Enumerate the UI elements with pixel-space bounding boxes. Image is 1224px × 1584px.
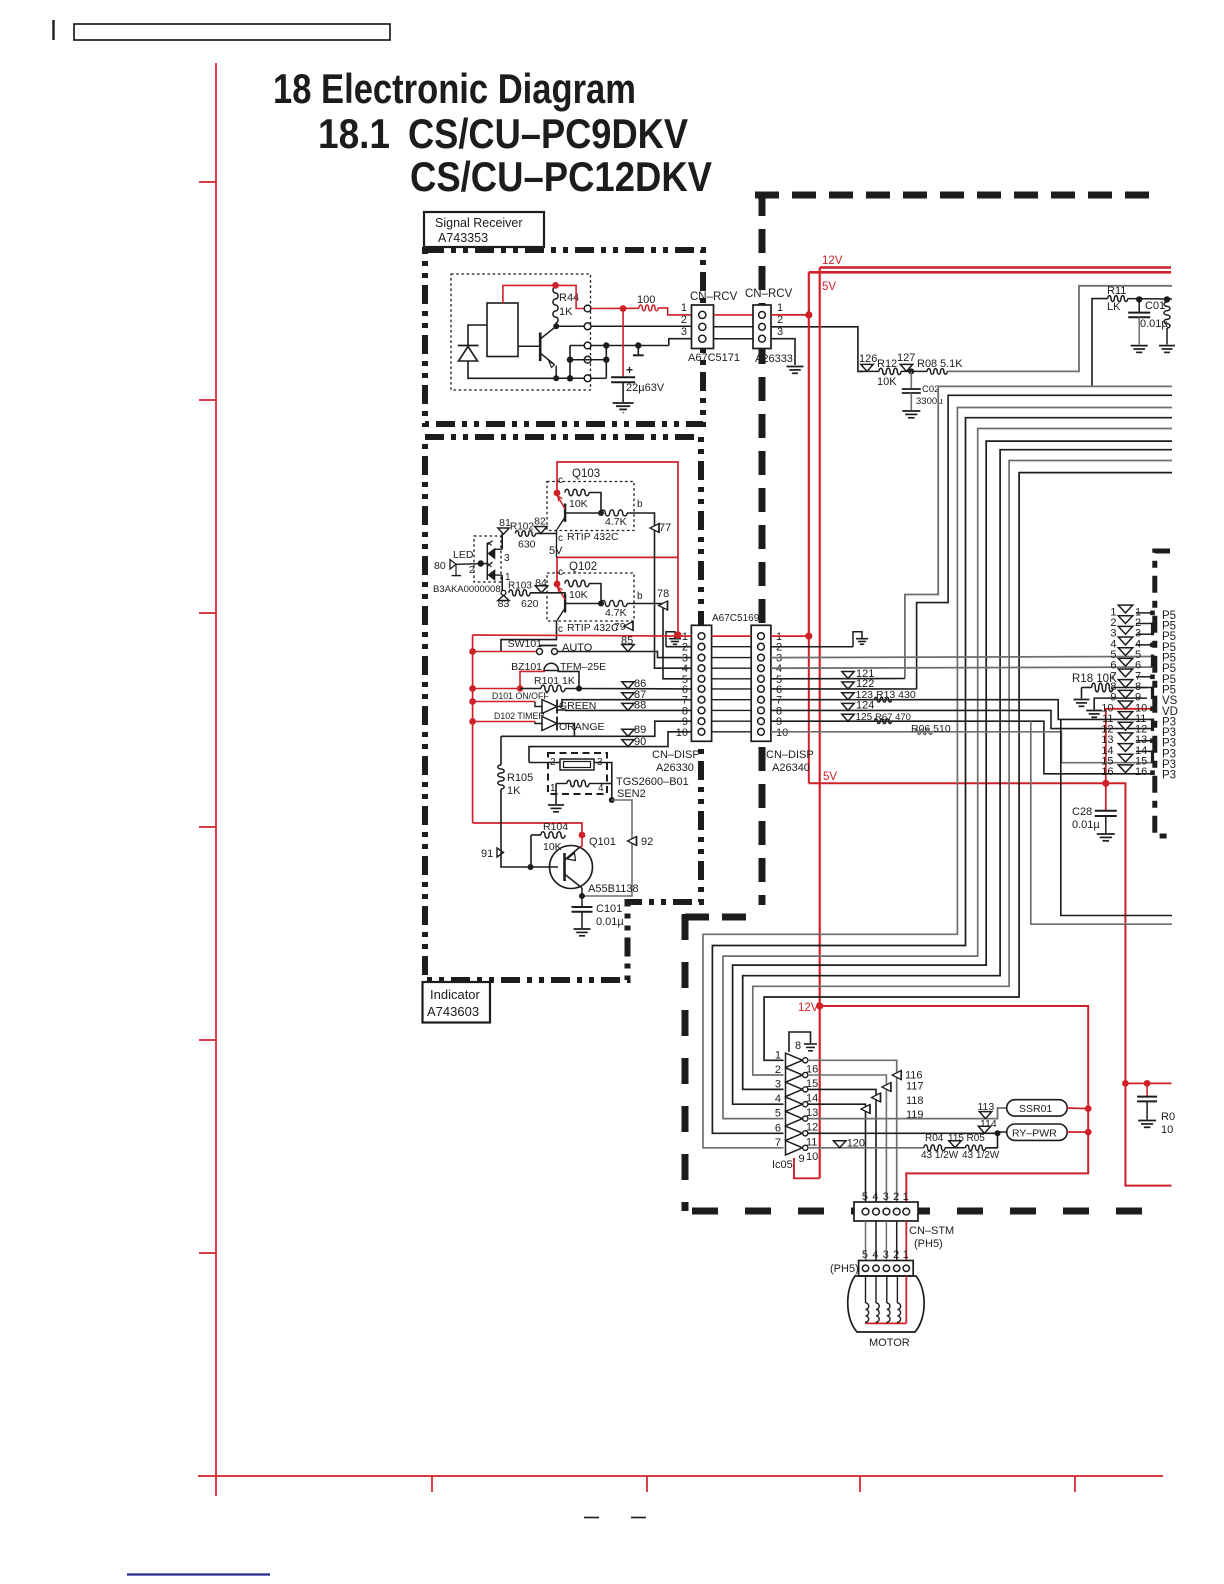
red registration tick x432 [431,1476,433,1492]
wire ORANGE out to pin9 line [557,724,574,737]
svg-text:(PH5): (PH5) [830,1263,859,1275]
red registration tick y1253 [199,1252,216,1254]
svg-text:4: 4 [872,1249,878,1261]
svg-text:77: 77 [659,522,671,534]
wire CN-DISP pin8 to header row12 [771,710,1152,728]
wire R105 to Q101 base [501,789,558,867]
svg-text:4.7K: 4.7K [605,607,627,619]
marker 118 [872,1093,881,1102]
LED D2 orange [488,570,495,580]
red registration tick y613 [199,612,216,614]
svg-text:10K: 10K [569,498,588,510]
svg-text:CN–DISP: CN–DISP [652,749,700,761]
svg-text:A26340: A26340 [772,762,810,774]
test point 83 [501,590,506,595]
wire 5V red to IC top [503,285,556,303]
wire sensor pin2 heater [529,762,560,764]
header stub row7 [1136,676,1151,678]
svg-text:C01: C01 [1145,300,1165,312]
red rail to Q103 [557,462,678,635]
wire red terminal to 100 [591,307,639,309]
svg-text:SEN2: SEN2 [617,788,646,800]
svg-text:15: 15 [806,1078,818,1090]
svg-text:6: 6 [775,1122,781,1134]
svg-text:5.1K: 5.1K [940,358,963,370]
wire A26333 pin3 to ground [771,339,795,365]
5V rail top [809,271,1171,274]
red rail indicator left [472,635,474,823]
wire cluster pin3 [591,345,669,347]
svg-text:0.01µ: 0.01µ [596,916,624,928]
wire out14 to CN-STM pin4 [808,1089,876,1211]
svg-text:CN–RCV: CN–RCV [690,291,738,303]
svg-text:5V: 5V [823,771,837,783]
red registration tick x1075 [1074,1476,1076,1492]
svg-text:Q101: Q101 [589,836,616,848]
svg-text:c: c [558,533,563,544]
svg-text:SW101: SW101 [508,638,543,650]
wire sensor pin1 to ground [555,784,557,805]
svg-text:(PH5): (PH5) [914,1238,943,1250]
bus wire 9 (to Ic05 input 1) [764,473,1172,1061]
svg-text:Q102: Q102 [569,561,597,573]
svg-text:88: 88 [634,700,646,712]
capacitor C28 0.01u [1105,783,1107,810]
red registration tick y1040 [199,1039,216,1041]
wire CN-DISP pin4 to header row6 [771,667,1152,668]
bus wire 4 (to Ic05 input 6) [712,418,1172,1134]
svg-text:16: 16 [1135,766,1147,778]
svg-text:A67C5171: A67C5171 [688,352,740,364]
wire LED2 down to R103 line [495,574,502,576]
capacitor C01 0.01u [1138,299,1140,312]
svg-text:LED: LED [453,549,474,561]
svg-text:b: b [637,591,643,602]
wire out16 to CN-STM pin2 [808,1060,897,1211]
red registration vertical line [215,63,217,1496]
svg-text:D102 TIMER: D102 TIMER [494,711,545,721]
wire out15 to CN-STM pin3 [808,1075,887,1212]
wire A26333 pin2 to R12 [771,327,864,372]
wire 5V right cap branch [1125,1082,1171,1084]
wire pins A67C5171 to A26333 [714,314,754,316]
wire R102 line to Q103 [535,533,556,535]
wire A26333 pin1 red to node [771,314,809,316]
svg-text:4: 4 [598,783,604,794]
svg-text:CN–STM: CN–STM [909,1225,954,1237]
marker 119 [861,1105,870,1114]
svg-text:127: 127 [897,352,915,364]
LED D1 green [486,543,488,580]
signal receiver dash-dot border [425,250,703,424]
relay RY-PWR [1007,1124,1067,1140]
svg-text:A743603: A743603 [427,1004,479,1019]
marker 117 [882,1083,891,1092]
svg-text:5V: 5V [822,281,836,293]
wire CN-DISP pin10 to header row15 [771,732,1152,763]
svg-text:+: + [626,363,633,377]
svg-text:124: 124 [856,700,874,712]
svg-text:10: 10 [676,727,688,739]
header stub row16 [1151,771,1155,775]
wire buzzer red feed [469,685,476,692]
svg-text:1: 1 [550,783,556,794]
gas sensor TGS2600-B01 SEN2 [548,753,607,794]
bus wire 6 (to Ic05 input 4) [733,441,1172,1104]
test point 124 [842,703,854,710]
node 5V at CN-DISP pin1 [805,633,812,640]
red wire CN-STM pin1 to motor [905,1221,907,1261]
wire out12 to SSR01 [808,1108,1007,1119]
wire pin2 line to connector [591,325,692,327]
junction R12 R08 C02 [908,368,914,374]
svg-text:90: 90 [634,736,646,748]
wire collector to pin2 line [556,325,584,327]
terminal row on dotted box edge [584,305,591,312]
transistor Q101 A55B1138 [550,846,593,889]
connector CN-DISP A26340 [751,625,771,741]
svg-text:82: 82 [534,516,546,528]
svg-text:16: 16 [1101,766,1113,778]
svg-text:78: 78 [657,588,669,600]
svg-text:A26330: A26330 [656,762,694,774]
svg-text:10: 10 [1161,1124,1173,1136]
wire LED1 to R102 line [495,548,502,550]
wire R08 to R11 node [947,286,1172,372]
wire Q102 collector to switch line [501,621,557,652]
red registration horizontal line [198,1475,1163,1477]
svg-text:RTIP 432C: RTIP 432C [567,531,619,543]
ground for VS row9 [1103,697,1147,699]
svg-text:R13 430: R13 430 [876,689,916,701]
svg-text:A55B1138: A55B1138 [588,883,639,895]
red rail top to connector pin1 [674,631,681,638]
svg-text:5: 5 [862,1249,868,1261]
wire sensor pin2 to pin10 line [529,732,691,763]
svg-text:118: 118 [906,1095,924,1107]
svg-text:RY–PWR: RY–PWR [1012,1127,1057,1139]
resistor R44 1K [553,287,558,323]
wire cluster mid row [570,359,591,361]
12V vertical rail [819,268,821,1179]
svg-text:MOTOR: MOTOR [869,1337,910,1349]
header stub row13 [1136,740,1151,742]
node R11 right resistor [1164,296,1170,302]
test point 125 [842,714,854,721]
svg-text:c: c [558,624,563,635]
svg-text:22µ63V: 22µ63V [626,382,665,394]
wire sensor pin3 heater to pin4 node [594,763,612,801]
wire bottom row to terminal [556,377,584,379]
svg-text:LK: LK [1107,301,1121,313]
svg-text:13: 13 [806,1107,818,1119]
test point 120 [834,1141,846,1148]
photodiode D100 [458,345,479,347]
bus wire 3 (to Ic05 input 7) [703,408,1172,1148]
wire cluster jog to pin3 [669,339,692,346]
svg-text:1K: 1K [507,785,521,797]
svg-text:10: 10 [806,1151,818,1163]
wire Q103 base to pin4 [627,513,691,668]
svg-text:14: 14 [806,1092,818,1104]
junction R44 bottom [553,323,559,329]
svg-text:10: 10 [776,727,788,739]
header stub row1 [1136,612,1151,614]
svg-text:43 1/2W: 43 1/2W [921,1150,959,1161]
svg-text:R0: R0 [1161,1111,1175,1123]
svg-text:18.1: 18.1 [318,110,390,157]
wire out11 to RY-PWR [808,1132,1007,1133]
wires CN-STM to PH5 plug [865,1221,867,1261]
12V branch to relays [820,1006,1088,1212]
node 5V right cap junction [1122,1080,1129,1087]
svg-text:12V: 12V [798,1002,819,1014]
node 5V at CN-RCV [805,311,812,318]
wire red R44 node to terminal [556,285,585,308]
motor common red wire [905,1276,907,1323]
lower board dashed border bottom [692,1208,1168,1215]
svg-text:TGS2600–B01: TGS2600–B01 [616,776,689,788]
wire CN-DISP pin9 to header row16 [771,721,1152,774]
svg-text:12: 12 [806,1122,818,1134]
svg-text:A67C5169: A67C5169 [712,613,760,624]
svg-text:5: 5 [775,1108,781,1120]
svg-text:89: 89 [634,724,646,736]
node RY-PWR supply [1085,1129,1092,1136]
bus wire 5 (to Ic05 input 5) [723,429,1172,1119]
svg-text:Ic05: Ic05 [772,1159,793,1171]
header bracket rows11-12 [1151,718,1154,731]
wire sensor node to Q101 collector [582,800,632,896]
bottom left navy rule [127,1573,270,1575]
svg-text:10K: 10K [877,376,897,388]
svg-text:2: 2 [681,314,687,326]
node SSR01 supply [1085,1105,1092,1112]
svg-text:3: 3 [775,1078,781,1090]
svg-text:100: 100 [637,294,655,306]
motor body [848,1276,924,1332]
svg-text:R101 1K: R101 1K [534,675,575,687]
receiver module dotted box [451,274,591,390]
svg-text:2: 2 [775,1064,781,1076]
node R44 top red [552,282,559,289]
svg-text:Signal Receiver: Signal Receiver [435,216,523,230]
wire VD supply red [1106,709,1152,784]
svg-text:3: 3 [883,1249,889,1261]
capacitor C02 3300u [910,371,912,388]
capacitor C29 edge [1146,1083,1148,1096]
svg-text:117: 117 [906,1081,924,1093]
svg-text:630: 630 [518,539,536,551]
wire CN-DISP pin1 red [712,635,752,637]
Indicator label box [423,982,491,1023]
wire R103 line to Q102 base [530,593,565,594]
red registration tick y182 [199,181,216,183]
svg-text:1: 1 [777,302,783,314]
wire Q101 collector to node [581,888,583,896]
test point 123 [842,693,854,700]
motor coils [865,1276,867,1303]
wire R11 feed from bus [1092,299,1108,387]
red wire Q101 emitter [580,835,582,847]
wire emitter junction [553,375,559,381]
svg-text:11: 11 [806,1136,817,1148]
svg-text:3: 3 [681,326,687,338]
wire Q102 base to pin5 [627,604,691,679]
wire CN-DISP pin2 to digital ground [771,646,853,648]
red registration tick y400 [199,399,216,401]
test point 122 [771,688,917,690]
svg-text:1K: 1K [559,306,573,318]
red registration tick x860 [859,1476,861,1492]
wire IC to base [518,345,540,347]
red registration tick x647 [646,1476,648,1492]
svg-text:3: 3 [504,553,510,564]
lower board dashed border top [685,914,756,921]
marker 116 [892,1071,901,1080]
svg-text:9: 9 [799,1153,805,1165]
node sensor pin4 [609,797,615,803]
node 5V C28 junction [1102,780,1109,787]
wire SW101 to pin3 [558,652,692,658]
lower board dashed border left [682,914,689,1211]
Signal Receiver label box [424,212,544,247]
test point 121 [771,678,905,680]
header bracket rows2-3 [1136,623,1153,625]
svg-text:16: 16 [806,1063,818,1075]
indicator dash-dot border [425,437,701,980]
red wire to R104 [473,823,582,835]
svg-text:CN–RCV: CN–RCV [745,288,793,300]
svg-text:79: 79 [614,621,626,633]
svg-text:18 Electronic Diagram: 18 Electronic Diagram [273,65,636,112]
svg-text:2: 2 [469,565,475,576]
bus wire 1 (to R11 node and CN-DISP pin5) [905,386,1172,678]
wire GREEN to pin7 [557,700,691,707]
digital ground at pin2 [666,646,691,648]
svg-text:D101 ON/OFF: D101 ON/OFF [492,691,549,701]
page corner tick mark [52,20,54,40]
svg-text:Indicator: Indicator [430,987,481,1002]
svg-text:125: 125 [856,712,873,723]
svg-text:R08: R08 [917,358,937,370]
microcontroller block dash-dot border [1155,551,1170,836]
svg-text:10K: 10K [543,841,562,853]
svg-text:91: 91 [481,848,493,860]
svg-text:1: 1 [903,1249,909,1261]
header stub row4 [1136,644,1151,646]
svg-text:C101: C101 [596,903,622,915]
svg-text:1: 1 [775,1049,781,1061]
resistor R105 1K [500,736,502,765]
bus wire 7 (to Ic05 input 3) [743,450,1172,1090]
header bracket rows5-6 [1151,655,1154,668]
Ic05 pin9 red wire [793,1158,795,1178]
svg-text:P3: P3 [1162,770,1176,782]
capacitor C101 0.01u [581,896,583,907]
svg-text:3: 3 [777,326,783,338]
bus wire 8 (to Ic05 input 2) [753,461,1172,1076]
marker 92 [628,837,637,846]
wire CN-DISP pin9 tap to page edge [1031,721,1172,924]
svg-text:10K: 10K [569,589,588,601]
svg-text:CN–DISP: CN–DISP [766,749,814,761]
svg-text:R05: R05 [967,1133,986,1144]
svg-text:2: 2 [893,1249,899,1261]
header bracket rows8-9 [1136,686,1153,688]
5V vertical CN-DISP to 5V bus [808,636,810,783]
header bracket rows14-15 [1136,750,1153,752]
svg-text:b: b [637,499,643,510]
svg-text:80: 80 [434,560,446,572]
wire photodiode bottom rail [468,361,556,378]
relay SSR01 [1007,1100,1067,1116]
node R11 C01 [1136,296,1142,302]
red registration tick y827 [199,826,216,828]
driver IC Ic05 body [786,1053,803,1067]
5V vertical from CN-RCV node [808,272,810,636]
wire R05 to RY-PWR node [986,1133,998,1148]
svg-text:126: 126 [859,353,877,365]
svg-text:2: 2 [777,314,783,326]
svg-text:R04: R04 [925,1133,944,1144]
svg-text:0.01µ: 0.01µ [1072,819,1100,831]
wire GREEN out to pin8 [557,709,691,711]
bottom center dash marks [584,1517,599,1519]
svg-text:c: c [558,475,563,486]
main board dashed border left [759,192,766,905]
wire out13 to CN-STM pin5 [808,1104,866,1211]
svg-text:C02: C02 [922,384,939,395]
resistor R at page edge [1164,302,1170,328]
svg-text:A743353: A743353 [438,231,488,245]
header stub row10 [1151,707,1155,711]
wire CN-DISP pin3 to header row5 [771,657,1152,658]
svg-text:43 1/2W: 43 1/2W [962,1150,1000,1161]
main board dashed border top [755,192,1152,199]
svg-text:620: 620 [521,598,539,610]
12V feed to Ic05 pin9 [794,1158,820,1178]
svg-text:92: 92 [641,836,653,848]
transistor Q100 [539,333,542,362]
wire 100 to CN-RCV pin1 [658,308,691,315]
svg-text:1: 1 [681,302,687,314]
wire out10 through R04 R05 [808,1147,924,1149]
wire R101 to pin6 [565,688,691,690]
svg-text:8: 8 [795,1040,801,1052]
wire header row11 tap to page edge [1061,719,1172,915]
receiver IC U100 [487,303,518,357]
12V branch node [816,1002,823,1009]
wire photodiode to IC [468,325,487,346]
svg-text:Q103: Q103 [572,468,600,480]
wire CN-DISP pin7 to header row11 [771,700,1152,720]
wire buzzer to junction [558,671,580,688]
svg-text:4.7K: 4.7K [605,516,627,528]
svg-text:R104: R104 [543,821,568,833]
svg-text:7: 7 [775,1137,781,1149]
svg-text:RTIP 432C: RTIP 432C [567,622,619,634]
svg-text:A26333: A26333 [755,353,793,365]
svg-text:CS/CU–PC9DKV: CS/CU–PC9DKV [408,110,688,157]
svg-text:SSR01: SSR01 [1019,1103,1052,1115]
wire pins between CN-DISP connectors [712,646,752,648]
capacitor C100 22u63V [622,309,624,377]
header box [74,24,390,40]
svg-text:R105: R105 [507,772,533,784]
svg-text:B3AKA0000008: B3AKA0000008 [433,584,501,595]
svg-text:4: 4 [775,1093,781,1105]
